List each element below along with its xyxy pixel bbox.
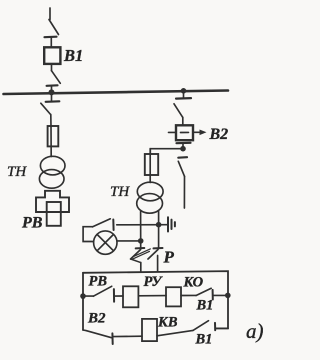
ground symbol bar3 [174,222,176,226]
svg-text:РВ: РВ [21,215,43,232]
breaker box B2 [176,125,193,140]
wire: KO to B1 contact [181,294,196,296]
contact tick below junction [178,156,187,159]
disconnector blade QS1 upper [49,20,59,35]
contact tick below bus left [46,100,60,103]
wire: lamp to left lead [117,240,141,242]
wire: top feeder stub [49,8,51,20]
wire: RV tick to RU coil [114,295,123,297]
contact B1 bottom tick [214,323,216,330]
surge arrester RV inner box [47,202,61,226]
wire: bus to right tick [183,91,185,98]
disconnector blade below B1 [52,71,61,84]
transformer TN2 top winding [137,182,163,201]
switch P right tick [154,247,163,249]
node: right lead junction [156,222,162,228]
node: bus junction left [49,89,55,95]
switch P right blade [148,250,158,260]
svg-text:РВ: РВ [89,274,108,290]
wire: B1 tick to right edge [213,294,228,296]
disconnector blade outgoing [178,161,184,176]
wire: outgoing feeder end [183,176,185,208]
wire: B1 tick to right corner [215,327,228,329]
transformer TN1 bottom winding [39,170,64,189]
svg-text:В2: В2 [87,311,106,327]
node: left edge junction [80,293,86,299]
fuse F1 left [48,126,59,146]
svg-text:РУ: РУ [144,274,164,290]
wire: top row left segment [83,295,93,297]
wire: secondary horizontal to ground [117,224,168,226]
wire: tick to junction [182,143,184,149]
switch P link bar 2 [133,249,150,257]
relay coil RU [123,286,138,307]
wire through fuse F2 [149,149,151,183]
busbar [4,91,229,95]
transformer TN2 bottom winding [137,194,163,214]
disconnector blade left branch [41,103,51,114]
contact B1 top tick [212,290,214,300]
control box outline [83,271,228,328]
stub left of B2 box [169,131,177,133]
contact RV tick [113,289,115,302]
arrow line to label B2 [193,131,201,133]
disconnector blade above B2 [174,104,183,118]
arrowhead B2 [200,130,207,136]
wire: tick to B1 box [50,38,52,48]
wire: RU to KO [138,295,166,297]
control box left edge [82,273,84,330]
lamp switch tick [112,220,114,231]
wire through fuse F1 [50,127,52,157]
svg-text:В2: В2 [209,126,229,143]
relay coil KV [142,319,157,341]
svg-text:а): а) [246,319,264,343]
lamp X stroke 2 [97,235,113,251]
contact tick below B2 box [177,142,191,145]
dash inside B2 box [181,131,189,133]
contact B1 top blade [196,288,211,295]
contact RV blade [93,286,111,296]
svg-text:КВ: КВ [157,315,178,331]
switch P left lower lead [140,262,142,272]
svg-text:В1: В1 [63,46,83,65]
switch P link bar 1 [132,251,149,259]
svg-text:В1: В1 [195,332,213,348]
svg-text:В1: В1 [196,298,214,314]
contact tick above B1 [45,36,57,39]
node: right edge junction [225,293,231,299]
contact tick below bus right [176,97,191,100]
node: bus junction right [181,88,187,94]
lamp switch blade [92,219,110,227]
switch P left tick [136,247,145,249]
wire: B2 tick to KV coil [113,335,142,337]
wire: KV to B1 bottom contact [157,330,193,335]
ground symbol bar1 [167,217,169,231]
wire: junction to right fuse corner [150,149,183,155]
fuse F2 right [145,154,158,175]
switch P left blade foot [131,259,141,263]
surge arrester RV cross outline [36,191,69,212]
wire: TN2 right lead [158,212,160,249]
wire: tick to bus [51,86,53,93]
lamp switch bracket [83,227,93,242]
switch P right lower lead [157,256,159,272]
switch P left blade [131,250,141,260]
contact B1 bottom blade [193,321,209,331]
node: left lead junction [138,238,144,244]
contact B2 tick [111,333,113,344]
svg-text:ТН: ТН [110,184,130,200]
wire: TN2 left lead [140,212,142,249]
transformer TN1 top winding [40,156,65,175]
breaker box B1 [44,47,60,64]
svg-text:Р: Р [163,248,175,267]
wire: B1 box to blade [51,64,53,71]
lamp HL circle [94,231,117,254]
wire: blade to fuse [50,115,52,127]
wire: blade to B2 box [182,117,184,125]
contact B2 blade bottom row [83,330,111,338]
svg-text:ТН: ТН [7,164,27,180]
contact tick above bus left [47,84,58,87]
lamp X stroke 1 [97,235,113,251]
svg-text:КО: КО [183,275,204,291]
ground symbol bar2 [171,220,173,229]
wire: bus to left tick [51,92,53,100]
node: junction below B2 [180,146,186,152]
relay coil KO [166,287,181,306]
